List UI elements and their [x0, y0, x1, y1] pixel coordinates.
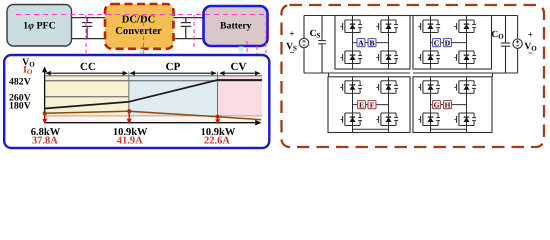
node label D: [444, 39, 452, 47]
svg-text:CO: CO: [491, 30, 504, 41]
switch cell Q12: [376, 113, 398, 126]
node label G: [433, 101, 441, 109]
wire: DC/DC to Battery bottom bus: [172, 38, 203, 40]
y axis with up arrow: [44, 71, 46, 123]
red down arrow at CC/CP boundary: [128, 113, 130, 121]
switch cell Q10: [340, 113, 362, 126]
bridge CD left leg: [430, 16, 432, 70]
capacitor C2 (dc-link between DC/DC and Battery): [181, 18, 191, 39]
bridge GH midpoint wire: [431, 104, 467, 106]
output source V_O leg wire: [517, 16, 519, 40]
red down arrow at CP/CV boundary: [217, 118, 219, 121]
annotation: magenta dashed vertical at dc-link C1: [85, 15, 87, 53]
switch cell Q4: [376, 51, 398, 64]
node label C: [433, 39, 441, 47]
svg-text:482V: 482V: [9, 76, 31, 87]
bridge AB frame: [335, 16, 410, 70]
svg-text:CV: CV: [231, 61, 247, 73]
I_O dot at CC/CP boundary: [127, 109, 131, 113]
bridge CD frame: [413, 16, 492, 70]
svg-text:E: E: [359, 100, 364, 109]
voltage source V_S circle: [299, 38, 308, 47]
node label H: [444, 101, 452, 109]
switch cell Q11: [376, 81, 398, 94]
node label F: [368, 101, 376, 109]
bridge AB right leg: [388, 16, 390, 70]
svg-text:37.8A: 37.8A: [32, 136, 58, 147]
svg-text:CC: CC: [80, 61, 96, 73]
I_O dot at CC start: [43, 111, 47, 115]
bridge GH frame: [413, 77, 492, 133]
annotation: magenta dashed vertical at dc-link C2: [193, 15, 195, 50]
svg-text:22.6A: 22.6A: [204, 136, 230, 147]
svg-text:1φ PFC: 1φ PFC: [23, 20, 56, 31]
voltage source V_O circle: [513, 39, 522, 48]
bridge CD right leg: [466, 16, 468, 70]
output bottom rail: [413, 72, 518, 74]
block: DC/DC Converter: [105, 4, 174, 49]
wire: PFC to DC/DC top bus: [71, 17, 106, 19]
annotation: magenta dashed vertical at Battery (right): [256, 46, 258, 56]
svg-text:CS: CS: [310, 29, 321, 40]
bridge CD midpoint wire: [431, 42, 467, 44]
switch cell Q8: [454, 51, 476, 64]
bridge EF right leg: [388, 77, 390, 133]
V_O curve (black): [45, 80, 262, 109]
svg-text:C: C: [434, 38, 439, 47]
link wire down to GH bridge: [492, 73, 494, 77]
chart panel border: [4, 55, 269, 148]
switch cell Q5: [418, 20, 440, 33]
CC/CP boundary vertical: [128, 72, 130, 116]
svg-text:CP: CP: [166, 61, 181, 73]
bridge GH left leg: [430, 77, 432, 133]
CC span arrow: [45, 71, 128, 76]
switch cell Q16: [454, 113, 476, 126]
svg-text:−: −: [528, 48, 533, 58]
switch cell Q6: [418, 51, 440, 64]
gridline 482V: [45, 80, 262, 82]
bridge AB midpoint wire: [353, 42, 389, 44]
svg-text:+: +: [289, 29, 294, 39]
annotation: cyan dashed vertical beside DC/DC vertical: [140, 49, 144, 68]
annotation: magenta dashed vertical at Battery (left): [246, 41, 248, 66]
svg-text:B: B: [369, 38, 374, 47]
switch cell Q1: [340, 20, 362, 33]
capacitor C1 (dc-link between PFC and DC/DC): [82, 18, 92, 39]
switch cell Q3: [376, 20, 398, 33]
svg-text:41.9A: 41.9A: [117, 136, 143, 147]
block: 1-phase PFC: [7, 5, 72, 47]
red dashed outer border of converter panel: [282, 5, 545, 147]
svg-text:DC/DC: DC/DC: [122, 15, 156, 26]
wire: DC/DC to Battery top bus: [172, 17, 203, 19]
switch cell Q9: [340, 81, 362, 94]
x axis with right arrow: [45, 122, 258, 124]
bridge EF frame: [328, 77, 410, 133]
source V_S leg wire: [303, 16, 305, 39]
annotation: cyan dashed vertical under Battery: [239, 47, 244, 67]
top dc rail: [304, 15, 518, 17]
capacitor C_O: [501, 16, 510, 74]
bridge EF left leg: [352, 77, 354, 133]
red down arrow at CC start: [44, 115, 46, 121]
I_O dot at CP/CV boundary: [216, 115, 220, 119]
block: Battery: [204, 6, 268, 46]
node label B: [368, 39, 376, 47]
svg-text:−: −: [289, 48, 294, 58]
bridge GH lower link rail: [431, 128, 467, 130]
bridge EF midpoint wire: [353, 104, 389, 106]
switch cell Q15: [454, 81, 476, 94]
svg-text:A: A: [358, 38, 364, 47]
svg-text:D: D: [445, 38, 451, 47]
gridline 260V (CC region only): [45, 96, 129, 98]
capacitor C_S: [318, 16, 326, 74]
svg-text:G: G: [434, 100, 440, 109]
switch cell Q2: [340, 51, 362, 64]
annotation: magenta dashed measurement line (horizontal): [16, 14, 265, 16]
switch cell Q7: [454, 20, 476, 33]
CV span arrow: [219, 71, 260, 76]
CC region band: [45, 76, 129, 116]
pale strip under chart bands: [45, 116, 262, 123]
node label A: [357, 39, 365, 47]
I_O curve (brown): [45, 111, 261, 120]
CP span arrow: [130, 71, 217, 76]
svg-text:180V: 180V: [9, 100, 31, 111]
svg-text:+: +: [528, 30, 533, 40]
CV region band: [218, 76, 263, 116]
svg-text:F: F: [370, 100, 375, 109]
bridge EF lower link rail: [353, 128, 389, 130]
bridge AB left leg: [352, 16, 354, 70]
annotation: magenta dashed vertical through DC/DC converter: [143, 15, 145, 68]
switch cell Q13: [418, 81, 440, 94]
input bottom rail: [304, 72, 410, 74]
link wire down to EF bridge: [328, 73, 330, 77]
svg-text:Converter: Converter: [115, 26, 162, 37]
wire: PFC to DC/DC bottom bus: [71, 38, 106, 40]
CP/CV boundary vertical: [217, 72, 219, 116]
svg-text:Battery: Battery: [220, 21, 252, 32]
annotation: magenta dashed vertical right of Battery: [265, 15, 267, 53]
band bottom tan line: [45, 115, 262, 117]
svg-text:H: H: [445, 100, 451, 109]
chart top edge line: [45, 75, 262, 77]
bridge GH right leg: [466, 77, 468, 133]
node label E: [358, 101, 366, 109]
switch cell Q14: [418, 113, 440, 126]
CP region band: [129, 76, 218, 116]
